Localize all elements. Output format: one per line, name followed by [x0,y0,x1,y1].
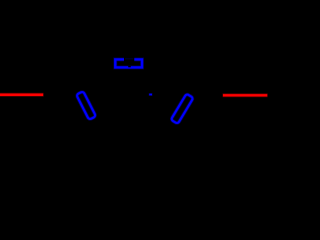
circuit schematic on black background [0,0,289,183]
node A (small blue tick at centre) [149,93,153,96]
black notch on U1 bottom edge [128,66,131,68]
wire W1 (left red lead) [0,93,44,97]
resistor R1 (left tilted blue rounded-rect body) [76,91,96,120]
resistor R2 (right tilted blue rounded-rect body) [171,94,194,124]
wire W2 (right red lead) [223,93,268,97]
component U1 (top blue rectangle, top edge broken by a gap) [115,59,142,68]
